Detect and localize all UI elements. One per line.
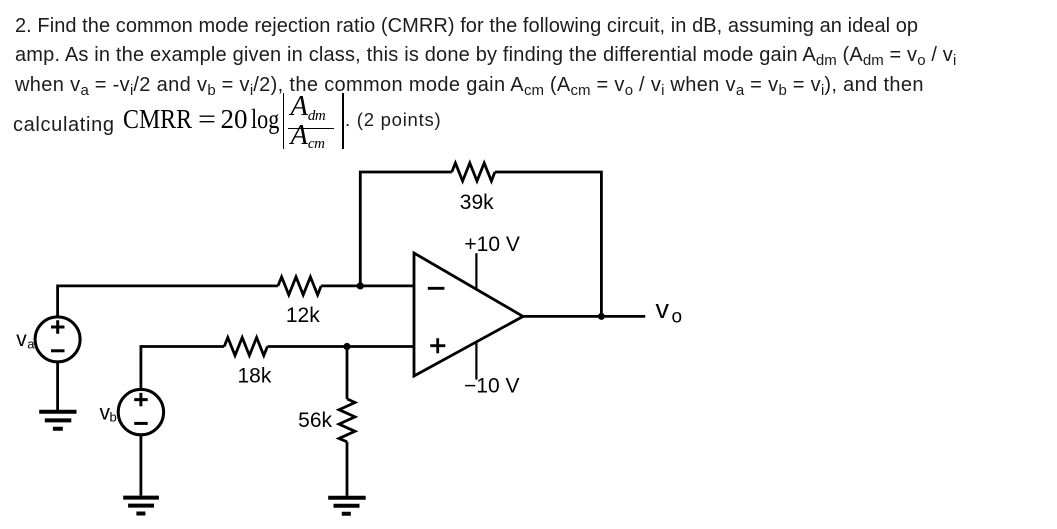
wire: vb to ground <box>139 435 142 496</box>
svg-text:o: o <box>672 307 683 328</box>
wire: inverting input horizontal from va with corner <box>58 286 278 317</box>
wire: vb horizontal to 18k with corner <box>141 347 224 390</box>
problem statement line 4: calculating <box>13 115 115 135</box>
wire: negative supply stub <box>475 342 477 380</box>
formula period and (2 points) <box>345 111 441 130</box>
ground under 56k <box>328 498 366 514</box>
wire: output <box>523 315 645 318</box>
resistor R 56k zigzag <box>339 399 355 442</box>
source Vb plus sign <box>134 393 148 406</box>
source Va circle <box>35 317 80 362</box>
wire: feedback top horizontal left lead with corner <box>360 172 452 286</box>
formula 20 <box>221 106 248 133</box>
resistor R 18k zigzag <box>224 338 267 356</box>
formula right absolute-value bar <box>342 93 344 149</box>
op-amp minus input symbol <box>428 287 445 290</box>
formula log <box>251 106 279 133</box>
ground under Va <box>39 412 76 429</box>
problem statement line 2 <box>15 45 956 67</box>
problem statement line 3 <box>15 75 924 97</box>
svg-text:v: v <box>16 328 27 351</box>
wire: positive supply stub <box>475 253 477 288</box>
problem statement line 1 <box>15 16 918 36</box>
wire: 18k lead to op-amp <box>267 345 414 348</box>
source Va minus sign <box>51 349 65 352</box>
formula left absolute-value bar <box>283 93 285 149</box>
svg-text:39k: 39k <box>460 191 494 214</box>
svg-text:−10 V: −10 V <box>464 375 519 398</box>
svg-text:56k: 56k <box>298 409 332 432</box>
source Vb minus sign <box>134 422 148 425</box>
source Va plus sign <box>51 320 65 333</box>
wire: feedback top horizontal right lead with corner <box>495 172 602 316</box>
junction node at output <box>598 313 605 320</box>
wire: 56k vertical top lead <box>346 347 349 399</box>
svg-text:18k: 18k <box>237 365 271 388</box>
formula equals <box>198 106 216 133</box>
svg-text:v: v <box>656 294 670 324</box>
junction node at inverting input <box>357 282 364 289</box>
svg-text:b: b <box>110 410 117 425</box>
svg-text:a: a <box>27 337 35 352</box>
formula CMRR <box>123 106 192 133</box>
op-amp U1 triangle <box>414 253 523 376</box>
wire: 56k bottom lead to ground <box>346 442 349 496</box>
wire: va to ground <box>56 362 59 410</box>
svg-text:+10 V: +10 V <box>464 233 519 256</box>
op-amp plus input symbol <box>430 338 445 353</box>
formula denominator A cm <box>291 122 325 154</box>
resistor R 12k zigzag <box>278 277 321 295</box>
resistor R 39k zigzag <box>452 163 495 181</box>
ground under Vb <box>123 498 159 514</box>
formula numerator A dm <box>291 93 326 125</box>
wire: inverting input lead to op-amp <box>321 284 414 287</box>
svg-text:12k: 12k <box>286 304 320 327</box>
source Vb circle <box>118 389 163 434</box>
junction node at non-inverting input <box>343 343 350 350</box>
formula fraction line <box>288 128 334 130</box>
